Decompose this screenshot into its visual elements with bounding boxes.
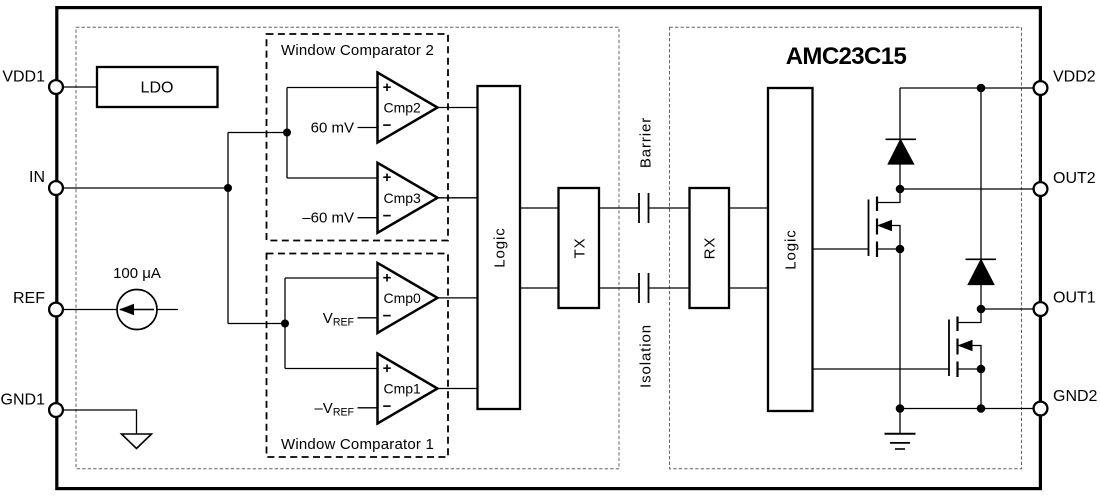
block Logic right: [768, 88, 813, 411]
wire WC1 input rail: [284, 278, 286, 369]
wire OUT2: [900, 188, 1034, 190]
node GND2 right junction: [977, 404, 986, 413]
node Q1 source junction: [896, 245, 905, 254]
left isolation-side dashed region: [76, 27, 619, 469]
svg-text:Cmp1: Cmp1: [384, 381, 422, 397]
wire REF to current source: [56, 309, 178, 311]
block TX: [559, 188, 600, 308]
wire Cmp3 minus stub: [358, 217, 378, 219]
svg-text:Window Comparator 1: Window Comparator 1: [281, 436, 434, 453]
current source 100uA: [117, 290, 157, 330]
wire Cmp3 output: [438, 197, 478, 199]
dashed box Window Comparator 2: [267, 34, 449, 241]
svg-text:AMC23C15: AMC23C15: [786, 43, 907, 70]
svg-text:Cmp2: Cmp2: [384, 100, 422, 116]
wire TX to cap lower: [599, 287, 639, 289]
node GND2 left junction: [896, 404, 905, 413]
wire Cmp0 output: [438, 297, 478, 299]
right isolation-side dashed region: [670, 27, 1022, 469]
svg-text:+: +: [383, 360, 392, 377]
svg-text:−: −: [383, 307, 392, 324]
svg-text:60 mV: 60 mV: [311, 120, 354, 137]
wire VDD2 rail: [900, 87, 1034, 89]
svg-text:+: +: [383, 169, 392, 186]
svg-text:Logic: Logic: [782, 229, 799, 269]
svg-text:GND2: GND2: [1053, 388, 1098, 405]
svg-text:VDD2: VDD2: [1053, 69, 1096, 86]
wire IN vertical rail: [227, 133, 229, 324]
wire Cmp0 plus input: [285, 277, 378, 279]
transistor Q1: [869, 189, 901, 257]
wire diode D2 anode to OUT1 node: [980, 285, 982, 310]
capacitor barrier upper: [639, 193, 649, 223]
svg-text:+: +: [383, 269, 392, 286]
svg-text:Cmp3: Cmp3: [384, 190, 422, 206]
node Q2 source junction: [977, 365, 986, 374]
wire VDD2 junction down to D2: [980, 88, 982, 259]
wire RX to Logic lower: [729, 287, 768, 289]
wire IN to junction: [56, 187, 228, 189]
dashed box Window Comparator 1: [267, 254, 449, 458]
comparator Cmp1: [378, 354, 438, 424]
comparator Cmp0: [378, 263, 438, 333]
pin OUT2: [1034, 182, 1048, 196]
node OUT1 junction: [977, 305, 986, 314]
wire Q2 source to GND2 rail: [980, 369, 982, 409]
diode D2: [966, 259, 997, 284]
pin REF: [49, 303, 63, 317]
wire cap to RX lower: [649, 287, 690, 289]
pin GND1: [49, 403, 63, 417]
svg-text:OUT1: OUT1: [1053, 290, 1096, 307]
svg-text:−: −: [383, 207, 392, 224]
wire Cmp2 minus stub: [358, 127, 378, 129]
wire GND2 rail: [900, 408, 1034, 410]
transistor Q2: [949, 309, 981, 377]
node WC1 input junction: [281, 320, 289, 328]
svg-text:100 μA: 100 μA: [113, 265, 161, 282]
wire Logic to Q1 gate: [813, 248, 869, 250]
wire OUT1: [981, 308, 1034, 310]
comparator Cmp2: [378, 73, 438, 143]
wire Cmp2 output: [438, 107, 478, 109]
svg-text:Isolation: Isolation: [637, 324, 654, 388]
capacitor barrier lower: [639, 273, 649, 303]
pin GND2: [1034, 402, 1048, 416]
wire Q1 source to GND2 rail: [899, 249, 901, 434]
diode D1: [886, 139, 917, 164]
wire WC2 input rail: [286, 88, 288, 179]
svg-text:+: +: [383, 79, 392, 96]
svg-text:−: −: [383, 398, 392, 415]
svg-text:VDD1: VDD1: [2, 69, 45, 86]
node WC2 input junction: [283, 129, 291, 137]
svg-text:Barrier: Barrier: [637, 117, 654, 168]
wire VDD1 to LDO: [56, 86, 97, 88]
wire diode D1 branch top: [899, 88, 901, 139]
wire IN to WC2 rail: [228, 132, 287, 134]
wire Cmp2 plus input: [287, 87, 378, 89]
svg-text:TX: TX: [571, 238, 588, 259]
regulator LDO: [97, 67, 218, 107]
wire Logic to Q2 gate: [813, 368, 950, 370]
svg-text:LDO: LDO: [141, 80, 174, 97]
wire IN to WC1 rail: [228, 323, 285, 325]
wire RX to Logic upper: [729, 207, 768, 209]
wire Cmp1 output: [438, 388, 478, 390]
svg-text:Window Comparator 2: Window Comparator 2: [281, 42, 434, 59]
wire Cmp1 minus stub: [358, 407, 378, 409]
pin IN: [49, 181, 63, 195]
node IN junction: [224, 184, 232, 192]
wire cap to RX upper: [649, 207, 690, 209]
node VDD2 junction: [977, 84, 986, 93]
ground symbol right: [885, 434, 916, 449]
block RX: [690, 188, 730, 308]
wire GND1 to ground: [56, 410, 137, 434]
svg-text:Logic: Logic: [491, 227, 508, 267]
pin VDD2: [1034, 81, 1048, 95]
svg-text:–60 mV: –60 mV: [302, 210, 354, 227]
ground symbol left: [122, 434, 152, 449]
wire Logic to TX upper: [520, 207, 559, 209]
svg-text:IN: IN: [29, 169, 45, 186]
svg-text:RX: RX: [701, 237, 718, 260]
block Logic left: [478, 86, 521, 409]
wire Cmp1 plus input: [285, 368, 378, 370]
svg-text:−: −: [383, 117, 392, 134]
wire diode D1 anode to OUT2 node: [899, 164, 901, 189]
pin OUT1: [1034, 302, 1048, 316]
pin VDD1: [49, 80, 63, 94]
node OUT2 junction: [896, 185, 905, 194]
wire Cmp3 plus input: [287, 177, 378, 179]
comparator Cmp3: [378, 163, 438, 233]
wire Cmp0 minus stub: [358, 317, 378, 319]
svg-text:GND1: GND1: [1, 391, 46, 408]
wire Logic to TX lower: [520, 287, 559, 289]
svg-text:Cmp0: Cmp0: [384, 290, 422, 306]
svg-text:REF: REF: [13, 290, 45, 307]
svg-text:OUT2: OUT2: [1053, 170, 1096, 187]
wire TX to cap upper: [599, 207, 639, 209]
